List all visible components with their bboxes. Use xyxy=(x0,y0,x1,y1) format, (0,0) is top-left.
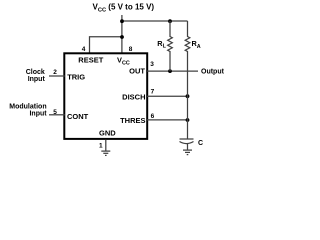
svg-text:5: 5 xyxy=(53,109,57,116)
svg-text:OUT: OUT xyxy=(129,67,145,76)
port label Clock Input xyxy=(26,69,46,83)
wire RESET jog to VCC xyxy=(90,37,123,54)
wire RA to THRES to capacitor xyxy=(187,96,189,139)
svg-text:4: 4 xyxy=(82,46,86,53)
node junction RL top xyxy=(168,19,172,23)
capacitor C xyxy=(180,139,194,150)
resistor RL xyxy=(168,21,173,71)
node junction C/THRES xyxy=(186,118,190,122)
svg-text:3: 3 xyxy=(150,61,154,68)
svg-text:DISCH: DISCH xyxy=(122,93,145,102)
svg-text:Output: Output xyxy=(201,69,225,76)
wire pin 2 TRIG xyxy=(49,75,65,77)
wire pin 6 THRES xyxy=(147,119,188,121)
svg-text:CONT: CONT xyxy=(67,112,89,121)
svg-text:Input: Input xyxy=(29,111,47,118)
svg-text:Modulation: Modulation xyxy=(9,104,46,111)
wire pin 5 CONT xyxy=(49,114,65,116)
svg-text:8: 8 xyxy=(129,46,133,53)
svg-text:7: 7 xyxy=(151,89,155,96)
svg-text:TRIG: TRIG xyxy=(67,73,85,82)
svg-text:THRES: THRES xyxy=(120,116,145,125)
wire VCC top rail xyxy=(122,20,188,22)
ground below pin 1 xyxy=(101,151,110,155)
port label Modulation Input xyxy=(9,104,47,118)
node junction RESET/VCC xyxy=(120,35,124,39)
node junction RL bottom on OUT xyxy=(168,69,172,73)
svg-text:Input: Input xyxy=(28,76,46,83)
svg-text:Clock: Clock xyxy=(26,69,45,76)
ground below capacitor xyxy=(183,150,192,155)
net label VCC (5 V to 15 V) xyxy=(93,3,155,14)
resistor RA xyxy=(185,21,190,96)
svg-text:2: 2 xyxy=(53,69,57,76)
svg-text:6: 6 xyxy=(151,113,155,120)
svg-text:GND: GND xyxy=(99,128,116,137)
wire pin 3 OUT to Output xyxy=(147,70,198,72)
node junction RA/DISCH xyxy=(186,94,190,98)
wire pin 7 DISCH xyxy=(147,95,188,97)
IC U1 555 timer body xyxy=(64,53,147,139)
svg-text:C: C xyxy=(198,140,203,147)
svg-text:RESET: RESET xyxy=(78,56,103,65)
wire pin 1 GND xyxy=(105,140,107,151)
node junction VCC rail xyxy=(120,19,124,23)
svg-text:1: 1 xyxy=(99,142,103,149)
wire VCC vertical to pin 8 xyxy=(121,15,123,54)
